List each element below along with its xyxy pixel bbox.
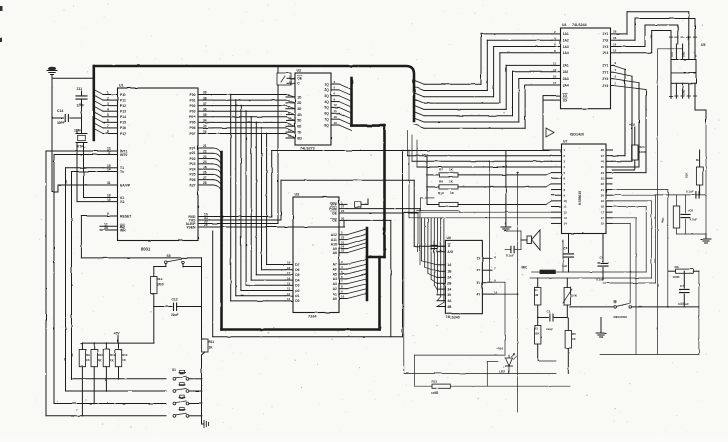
wire feed U7 pin12	[404, 211, 552, 213]
svg-text:27: 27	[341, 205, 345, 209]
ground top-left	[47, 67, 57, 79]
svg-text:25: 25	[341, 249, 345, 253]
wire EA/VP to gnd rail	[52, 185, 103, 192]
wire RESET net	[81, 216, 201, 258]
svg-text:R14: R14	[157, 278, 163, 282]
svg-text:28: 28	[203, 181, 207, 185]
svg-text:1Y3: 1Y3	[602, 45, 608, 49]
svg-text:Rb: Rb	[675, 265, 679, 269]
svg-text:3B: 3B	[447, 293, 452, 297]
wire analog row 278	[530, 277, 580, 279]
wire U7 pin21 to record	[612, 190, 668, 307]
svg-text:A2: A2	[333, 287, 337, 291]
svg-text:R13: R13	[122, 353, 128, 357]
svg-text:18: 18	[601, 205, 605, 209]
bus P2 address fan into thick bus	[213, 148, 222, 330]
wire crystal to X1	[84, 143, 104, 198]
svg-text:4B: 4B	[447, 305, 452, 309]
svg-text:19: 19	[107, 198, 111, 202]
svg-text:7D: 7D	[297, 130, 302, 134]
wire 1Y4 to U5	[620, 31, 671, 53]
LED D16	[498, 347, 517, 374]
svg-text:39: 39	[203, 91, 207, 95]
wire right rail down	[698, 271, 700, 354]
svg-text:U5: U5	[701, 43, 705, 47]
svg-text:7: 7	[107, 124, 109, 128]
svg-text:R13: R13	[432, 380, 438, 384]
voice chip U7 KS58015	[546, 128, 612, 234]
capacitor C4 0.1uF	[596, 234, 608, 282]
svg-text:3A: 3A	[447, 287, 452, 291]
svg-text:1uF: 1uF	[562, 264, 568, 268]
svg-text:MIC: MIC	[522, 266, 529, 270]
resistor R7 1K	[426, 168, 551, 178]
microcontroller U1 8031	[100, 84, 213, 252]
svg-text:24: 24	[601, 171, 605, 175]
wire x414 jog	[415, 355, 506, 386]
svg-text:16: 16	[613, 36, 617, 40]
wire x489 vertical	[489, 160, 491, 282]
svg-text:3Q: 3Q	[324, 94, 329, 98]
svg-text:17: 17	[601, 210, 605, 214]
connector U5	[669, 37, 705, 98]
svg-text:LED: LED	[499, 370, 506, 374]
wire U5 mid pin long	[658, 44, 683, 354]
svg-text:4.7uF: 4.7uF	[690, 218, 698, 222]
svg-text:2Y3: 2Y3	[602, 77, 608, 81]
svg-text:8031: 8031	[141, 247, 151, 252]
svg-text:ISD1420: ISD1420	[570, 133, 584, 137]
svg-text:8: 8	[107, 130, 109, 134]
svg-text:U3: U3	[295, 193, 300, 197]
svg-text:C1: C1	[547, 310, 551, 314]
svg-text:13: 13	[553, 68, 557, 72]
svg-text:29: 29	[204, 223, 208, 227]
svg-text:33: 33	[203, 124, 207, 128]
svg-text:14: 14	[564, 222, 568, 226]
svg-text:2: 2	[107, 96, 109, 100]
svg-text:1Y2: 1Y2	[602, 39, 608, 43]
svg-text:4D: 4D	[297, 113, 302, 117]
svg-text:11: 11	[564, 205, 567, 209]
svg-text:P05: P05	[189, 121, 195, 125]
resistor R10 1K	[427, 191, 552, 207]
svg-text:12: 12	[334, 103, 338, 107]
svg-text:+5V: +5V	[422, 153, 429, 157]
svg-text:U7: U7	[563, 140, 567, 144]
svg-text:R10: R10	[438, 191, 444, 195]
svg-text:1Q: 1Q	[324, 82, 329, 86]
svg-text:2G: 2G	[563, 99, 568, 103]
capacitor C12 22uF	[154, 298, 202, 318]
svg-text:P23: P23	[189, 162, 195, 166]
svg-text:P15: P15	[120, 121, 126, 125]
svg-text:22uF: 22uF	[546, 327, 553, 331]
svg-text:14: 14	[107, 168, 111, 172]
resistor R13 100R	[415, 380, 571, 396]
svg-text:2Y2: 2Y2	[602, 71, 608, 75]
svg-text:7164: 7164	[308, 315, 316, 319]
svg-text:P22: P22	[189, 157, 195, 161]
svg-text:4A: 4A	[447, 299, 452, 303]
svg-text:PSEN: PSEN	[186, 225, 196, 229]
svg-text:P14: P14	[120, 115, 126, 119]
svg-text:0.001uF: 0.001uF	[678, 302, 689, 306]
capacitor C11 12PF	[76, 87, 87, 108]
wire RXD long net	[213, 150, 552, 217]
svg-text:U4: U4	[562, 23, 566, 27]
capacitor right 0.1uF	[655, 190, 706, 199]
svg-text:10K: 10K	[572, 294, 578, 298]
wires 2Y outputs to U7	[612, 65, 646, 172]
svg-text:P25: P25	[189, 173, 195, 177]
svg-text:GND: GND	[683, 89, 686, 95]
resistor 45K right	[661, 195, 680, 234]
svg-text:20: 20	[341, 216, 345, 220]
svg-text:S5: S5	[167, 254, 171, 258]
svg-text:R7: R7	[439, 168, 443, 172]
svg-text:16: 16	[104, 226, 108, 230]
svg-text:21: 21	[203, 144, 207, 148]
svg-text:22: 22	[601, 182, 605, 186]
jumper on 273 OE	[213, 66, 295, 224]
svg-text:1A2: 1A2	[563, 39, 569, 43]
svg-text:1Y1: 1Y1	[602, 32, 608, 36]
svg-text:WR: WR	[120, 228, 126, 232]
svg-text:A4: A4	[333, 277, 337, 281]
switch S5	[165, 254, 202, 267]
svg-text:+C8: +C8	[688, 209, 694, 213]
svg-text:D3: D3	[295, 284, 299, 288]
svg-text:5: 5	[107, 113, 109, 117]
svg-text:12: 12	[107, 151, 111, 155]
potentiometer R6 10K	[563, 278, 578, 318]
svg-text:A11: A11	[331, 238, 337, 242]
svg-text:D16: D16	[498, 347, 504, 351]
svg-text:P02: P02	[189, 104, 195, 108]
svg-text:D6: D6	[295, 268, 299, 272]
svg-text:32: 32	[203, 130, 207, 134]
svg-text:P11: P11	[120, 98, 126, 102]
svg-text:P10: P10	[120, 93, 126, 97]
svg-text:A6: A6	[333, 267, 337, 271]
svg-text:D7: D7	[295, 263, 299, 267]
wires into U6 inputs	[422, 218, 444, 307]
wire feed U7 pin13	[409, 151, 552, 218]
svg-text:R11: R11	[209, 340, 215, 344]
svg-text:25: 25	[601, 165, 605, 169]
resistor R14 1000	[151, 267, 166, 307]
wire U6 4Y down	[492, 172, 518, 412]
buffer U4 74LS244	[552, 23, 620, 109]
bus A fan to RAM address	[347, 228, 367, 300]
wire PSEN row	[213, 220, 344, 227]
svg-text:19: 19	[287, 261, 291, 265]
svg-text:P07: P07	[189, 132, 195, 136]
svg-text:25: 25	[203, 165, 207, 169]
resistor R3 51K	[534, 318, 556, 362]
svg-text:C12: C12	[172, 298, 178, 302]
svg-text:1A: 1A	[447, 263, 452, 267]
svg-text:D0: D0	[295, 299, 299, 303]
wire gnd rail left	[52, 78, 94, 192]
wire corner left of R10	[417, 198, 460, 211]
power +5V keys	[114, 332, 121, 344]
capacitor on U6 enable	[431, 241, 437, 253]
svg-text:74LS240: 74LS240	[446, 316, 460, 320]
svg-text:A1: A1	[333, 292, 337, 296]
svg-text:51K: 51K	[685, 172, 689, 178]
svg-text:2D: 2D	[297, 101, 302, 105]
bus P0 data to latch and RAM	[213, 94, 295, 301]
bus thick bottom and right	[222, 257, 385, 330]
wire bottom right row	[677, 233, 707, 235]
wire 244 enable	[543, 96, 552, 150]
svg-text:P27: P27	[189, 183, 195, 187]
svg-text:A8: A8	[333, 251, 337, 255]
svg-text:27: 27	[601, 154, 605, 158]
capacitor C1 22uF	[538, 310, 568, 332]
svg-text:OE: OE	[332, 211, 338, 215]
wire U6 3Y down	[492, 282, 505, 355]
svg-text:12: 12	[564, 210, 568, 214]
resistor R5 1K	[565, 318, 577, 374]
svg-text:11: 11	[553, 62, 557, 66]
wire x487 stub	[487, 362, 498, 387]
svg-text:31: 31	[107, 181, 111, 185]
svg-text:30PF: 30PF	[57, 121, 65, 125]
svg-text:1D: 1D	[297, 95, 302, 99]
speaker SP	[506, 230, 540, 250]
svg-text:45K: 45K	[661, 217, 665, 223]
svg-text:1: 1	[107, 91, 109, 95]
microphone MIC	[522, 240, 564, 274]
svg-text:14: 14	[613, 42, 617, 46]
wire T0 to key row1	[72, 172, 167, 379]
wire bottom row right	[600, 353, 699, 355]
svg-text:A7: A7	[333, 263, 337, 267]
svg-text:0.1uF: 0.1uF	[506, 254, 514, 258]
ground key rail	[202, 416, 209, 428]
svg-text:1B: 1B	[447, 270, 452, 274]
svg-text:1A1: 1A1	[563, 32, 569, 36]
svg-text:2A: 2A	[447, 276, 452, 280]
svg-text:D1: D1	[295, 294, 299, 298]
resistor R1 1M	[534, 278, 541, 318]
svg-text:X2: X2	[120, 200, 124, 204]
resistor Rb 100K	[668, 265, 699, 279]
svg-text:17: 17	[287, 271, 291, 275]
svg-text:C7: C7	[680, 284, 684, 288]
ground under record	[596, 318, 606, 338]
svg-text:10: 10	[341, 294, 345, 298]
svg-text:P01: P01	[189, 98, 195, 102]
wire 1Y1 to U5	[620, 12, 689, 44]
svg-text:A/G: A/G	[447, 250, 453, 254]
capacitor C6 1uF	[562, 234, 574, 273]
crystal Y1 12M	[74, 107, 87, 149]
wire record left	[570, 306, 614, 308]
svg-text:OUT: OUT	[671, 51, 674, 57]
svg-text:1M: 1M	[534, 293, 539, 297]
svg-text:+5V: +5V	[114, 332, 121, 336]
svg-text:IN: IN	[695, 54, 698, 57]
svg-text:24: 24	[203, 160, 207, 164]
resistor R8 1K	[426, 180, 551, 190]
svg-text:23: 23	[203, 155, 207, 159]
wire PGM to U6	[347, 209, 420, 265]
svg-text:P04: P04	[189, 115, 195, 119]
svg-text:R8: R8	[439, 180, 443, 184]
svg-text:R10: R10	[98, 353, 104, 357]
ground right rail	[701, 234, 711, 243]
svg-text:2Y4: 2Y4	[602, 84, 608, 88]
wire right rail	[705, 124, 707, 239]
wire INT0 to key row3	[54, 155, 166, 404]
svg-text:16: 16	[601, 216, 605, 220]
svg-text:100K: 100K	[639, 150, 647, 154]
wire OE right	[347, 213, 418, 252]
svg-text:P06: P06	[189, 126, 195, 130]
svg-text:U2: U2	[297, 69, 302, 73]
switch S6 RECORD	[613, 300, 632, 320]
resistor R2 51K	[685, 150, 703, 195]
svg-text:34: 34	[203, 119, 207, 123]
svg-text:22uF: 22uF	[171, 313, 178, 317]
svg-text:KS58015: KS58015	[578, 191, 582, 205]
svg-text:2Q: 2Q	[324, 88, 329, 92]
svg-text:P12: P12	[120, 104, 126, 108]
svg-text:R12: R12	[110, 353, 116, 357]
svg-text:3D: 3D	[297, 107, 302, 111]
svg-text:23: 23	[601, 176, 605, 180]
svg-text:8D: 8D	[297, 136, 302, 140]
svg-text:13: 13	[564, 216, 568, 220]
switches S1-S4 keys	[172, 368, 202, 417]
wire feed U7 pin2	[408, 131, 552, 156]
wire 1Y3 to U5	[620, 25, 678, 47]
svg-text:74LS244: 74LS244	[572, 23, 587, 27]
wire record right	[632, 306, 699, 308]
svg-text:2A4: 2A4	[563, 83, 569, 87]
svg-text:U1: U1	[119, 84, 124, 88]
wire reset rail down	[201, 267, 203, 340]
svg-text:P03: P03	[189, 110, 195, 114]
svg-text:A12: A12	[331, 233, 337, 237]
svg-text:100R: 100R	[431, 391, 439, 395]
svg-text:A5: A5	[333, 272, 337, 276]
power +5V R7 rail	[422, 153, 429, 205]
svg-text:P26: P26	[189, 178, 195, 182]
power +5V R24	[629, 123, 636, 145]
svg-text:26: 26	[601, 160, 605, 164]
svg-text:22: 22	[203, 149, 207, 153]
svg-text:A3: A3	[333, 282, 337, 286]
svg-text:6: 6	[107, 119, 109, 123]
bus P1 staircase to 244 inputs	[414, 34, 552, 128]
wire INT1 to key row4	[46, 151, 166, 416]
svg-text:P16: P16	[120, 126, 126, 130]
resistor R24 100K	[612, 145, 647, 170]
svg-text:1Y4: 1Y4	[602, 51, 608, 55]
svg-text:2A1: 2A1	[563, 64, 569, 68]
wire TXD long net	[213, 180, 445, 246]
svg-text:1A4: 1A4	[563, 51, 569, 55]
svg-text:P20: P20	[189, 146, 195, 150]
svg-text:+5V: +5V	[629, 123, 636, 127]
svg-text:6Q: 6Q	[324, 112, 329, 116]
svg-text:2A2: 2A2	[563, 70, 569, 74]
capacitor C8 4.7uF	[681, 195, 697, 234]
svg-text:C6: C6	[564, 246, 568, 250]
wire feed U7 pin4	[417, 140, 552, 167]
svg-text:OE: OE	[297, 77, 303, 81]
svg-text:T0: T0	[120, 170, 124, 174]
resistor R11 1K	[202, 339, 215, 416]
svg-text:6D: 6D	[297, 125, 302, 129]
svg-text:2A3: 2A3	[563, 77, 569, 81]
wires U7 right nest to analog	[563, 195, 656, 354]
svg-text:37: 37	[203, 102, 207, 106]
svg-text:XTAL: XTAL	[77, 145, 85, 149]
wire U5 pin to right rail	[695, 98, 706, 123]
svg-text:EA/VP: EA/VP	[120, 183, 131, 187]
wire +5V rail	[81, 307, 154, 344]
RAM U3 7164	[285, 193, 347, 319]
svg-text:S1: S1	[172, 368, 176, 372]
wire T1 to key row2	[66, 168, 167, 391]
svg-text:4: 4	[107, 107, 109, 111]
svg-text:C14: C14	[57, 109, 63, 113]
svg-text:PGM: PGM	[329, 207, 337, 211]
capacitor C2 0.1uF	[505, 240, 521, 258]
svg-text:5Q: 5Q	[324, 106, 329, 110]
svg-text:P13: P13	[120, 110, 126, 114]
svg-text:0.1uF: 0.1uF	[686, 190, 694, 194]
box on VPP pin	[355, 199, 369, 207]
svg-text:18: 18	[287, 266, 291, 270]
svg-text:5D: 5D	[297, 119, 302, 123]
svg-text:12PF: 12PF	[77, 104, 85, 108]
svg-text:D5: D5	[295, 273, 299, 277]
svg-text:35: 35	[203, 113, 207, 117]
svg-text:17: 17	[553, 81, 557, 85]
frame left edge marks	[0, 6, 3, 42]
svg-text:R3: R3	[534, 327, 538, 331]
svg-text:16: 16	[287, 276, 291, 280]
svg-text:D2: D2	[295, 289, 299, 293]
buffer U6 74LS240	[437, 236, 498, 320]
svg-text:18: 18	[613, 30, 617, 34]
svg-text:16: 16	[334, 115, 338, 119]
svg-text:1K: 1K	[209, 346, 214, 350]
svg-text:0.1uF: 0.1uF	[596, 278, 604, 282]
svg-text:A0: A0	[333, 297, 337, 301]
svg-text:RECORD: RECORD	[614, 315, 628, 319]
svg-text:15: 15	[334, 109, 338, 113]
svg-text:INT0: INT0	[120, 153, 127, 157]
svg-text:RESET: RESET	[120, 214, 132, 218]
svg-text:Z11: Z11	[77, 87, 83, 91]
svg-text:28: 28	[601, 148, 605, 152]
svg-text:10: 10	[564, 199, 568, 203]
svg-text:51K: 51K	[534, 332, 540, 336]
capacitor C7 0.001uF	[678, 271, 689, 307]
svg-text:21: 21	[601, 188, 605, 192]
svg-text:1000: 1000	[157, 283, 164, 287]
svg-text:12: 12	[613, 49, 617, 53]
wire feed U7 pin3	[412, 135, 552, 161]
